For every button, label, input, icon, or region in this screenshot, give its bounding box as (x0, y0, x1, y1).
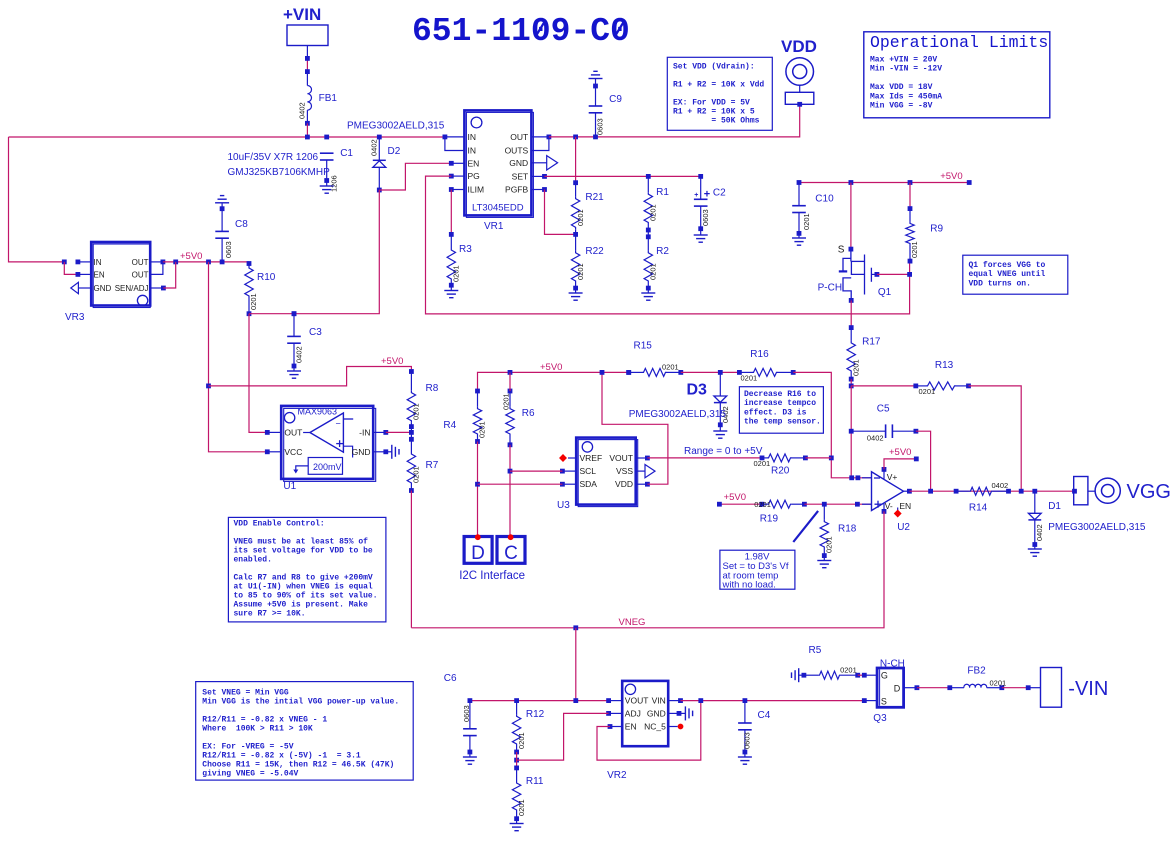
wire -IN (386, 431, 412, 433)
resistor R9 (906, 183, 914, 264)
junction (292, 311, 297, 316)
net +5V0 (889, 447, 911, 458)
svg-text:0201: 0201 (919, 387, 936, 396)
svg-text:0201: 0201 (802, 213, 811, 230)
value 0201 (R16) (741, 374, 758, 383)
junction (717, 502, 722, 507)
svg-text:0201: 0201 (576, 209, 585, 226)
svg-text:SET: SET (512, 171, 529, 181)
label C3 (309, 327, 322, 338)
wire (805, 457, 831, 459)
label R20 (771, 466, 790, 477)
value 0201 (R4) (477, 421, 486, 438)
value 0201 (R19) (754, 500, 771, 509)
svg-text:0201: 0201 (662, 362, 679, 371)
note capacitor part (228, 152, 331, 178)
junction (514, 758, 519, 763)
junction (928, 489, 1037, 494)
junction (514, 698, 578, 703)
label C4 (758, 710, 771, 721)
svg-text:R1 + R2 = 10K x 5: R1 + R2 = 10K x 5 (673, 108, 755, 117)
svg-text:-IN: -IN (359, 428, 370, 438)
op-amp U2 (862, 467, 912, 517)
junction (247, 311, 252, 316)
wire +5V0 rail (799, 182, 969, 184)
resistor R21 (571, 180, 579, 234)
svg-text:Decrease R16 to: Decrease R16 to (744, 390, 816, 399)
wire VR3 EN tie (64, 262, 78, 275)
svg-text:EX: For -VREG = -5V: EX: For -VREG = -5V (202, 743, 293, 752)
junction (849, 429, 854, 434)
junction (718, 370, 723, 375)
junction (849, 384, 854, 389)
svg-text:Max Ids = 450mA: Max Ids = 450mA (870, 92, 942, 101)
svg-text:Calc R7 and R8 to give +200mV: Calc R7 and R8 to give +200mV (234, 574, 373, 583)
svg-text:enabled.: enabled. (234, 556, 272, 565)
part PMEG3002AELD,315 (D1) (1048, 522, 1146, 533)
label FB1 (319, 93, 338, 104)
svg-text:Range = 0 to +5V: Range = 0 to +5V (684, 446, 763, 457)
svg-text:PGFB: PGFB (505, 185, 528, 195)
svg-text:GND: GND (647, 708, 666, 718)
junction (907, 272, 912, 277)
note Set VDD (667, 57, 772, 130)
svg-text:SEN/ADJ: SEN/ADJ (115, 284, 149, 293)
wire SET net (545, 175, 701, 177)
svg-text:Max +VIN = 20V: Max +VIN = 20V (870, 56, 937, 65)
wire +VIN rail (9, 136, 445, 138)
junction (409, 430, 414, 435)
value 0402 (C5) (867, 434, 884, 443)
svg-text:0603: 0603 (743, 732, 752, 749)
svg-text:R12/R11 = -0.82 x VNEG - 1: R12/R11 = -0.82 x VNEG - 1 (202, 716, 327, 725)
capacitor C9 (589, 71, 603, 137)
svg-text:651-1109-C0: 651-1109-C0 (412, 13, 630, 50)
label S (Q1 source) (838, 245, 845, 256)
note Operational Limits (864, 32, 1050, 118)
wire (306, 123, 308, 137)
wire (851, 385, 916, 387)
junction (508, 370, 631, 375)
transistor Q3 (N-CH MOSFET) (862, 668, 919, 707)
svg-text:EN: EN (468, 158, 480, 168)
wire (9, 137, 65, 262)
label R17 (862, 337, 881, 348)
label R16 (750, 349, 769, 360)
label U2 (897, 522, 910, 533)
value 0201 (R18) (825, 536, 834, 553)
label D2 (388, 146, 401, 157)
svg-text:VDD Enable Control:: VDD Enable Control: (234, 520, 325, 529)
wire OUT net (549, 104, 800, 137)
resistor R20 (760, 454, 808, 462)
note VDD Enable Control (228, 517, 386, 622)
svg-text:Q3: Q3 (873, 713, 887, 724)
svg-text:+: + (694, 192, 698, 199)
svg-text:Set VNEG = Min VGG: Set VNEG = Min VGG (202, 689, 289, 698)
svg-text:0201: 0201 (576, 263, 585, 280)
wire PG net (426, 176, 910, 314)
junction (475, 482, 480, 487)
value 0201 (R10) (249, 293, 258, 310)
diode D1 (1028, 491, 1042, 556)
svg-text:0201: 0201 (452, 265, 461, 282)
wire +5V0 from VR3 (163, 261, 249, 263)
svg-text:−: − (336, 419, 341, 429)
svg-text:0201: 0201 (990, 679, 1007, 688)
label Q3 (873, 713, 887, 724)
svg-text:ADJ: ADJ (625, 708, 641, 718)
value 0201 (R20) (754, 459, 771, 468)
svg-text:VDD turns on.: VDD turns on. (969, 279, 1031, 288)
capacitor C2 (polarized) (694, 174, 711, 242)
junction (305, 56, 310, 74)
svg-text:VNEG must be at least 85% of: VNEG must be at least 85% of (234, 538, 369, 547)
svg-text:U3: U3 (557, 500, 570, 511)
label R5 (809, 645, 822, 656)
svg-text:IN: IN (468, 146, 477, 156)
svg-text:D2: D2 (388, 146, 401, 157)
label C5 (877, 404, 890, 415)
svg-text:-VIN: -VIN (1068, 678, 1108, 700)
svg-text:+5V0: +5V0 (180, 251, 202, 262)
svg-text:V+: V+ (887, 472, 898, 482)
svg-text:IN: IN (94, 258, 102, 267)
wire SCL (510, 470, 562, 472)
svg-text:0201: 0201 (649, 204, 658, 221)
value 0201 (R22) (576, 263, 585, 280)
label C8 (235, 219, 248, 230)
label C1 (340, 148, 353, 159)
wire (306, 58, 308, 71)
svg-text:VNEG: VNEG (619, 617, 646, 628)
svg-text:C5: C5 (877, 404, 890, 415)
resistor R15 (626, 368, 683, 376)
wire EN tie (597, 701, 701, 761)
value 0402 (D2) (369, 139, 378, 156)
port VDD (781, 37, 817, 107)
svg-text:EN: EN (625, 722, 637, 732)
label R19 (760, 514, 779, 525)
net +5V0 (724, 492, 746, 503)
svg-text:equal VNEG until: equal VNEG until (969, 270, 1046, 279)
capacitor C6 (463, 698, 477, 764)
svg-text:EX: For VDD = 5V: EX: For VDD = 5V (673, 99, 750, 108)
svg-text:D3: D3 (687, 382, 708, 399)
label D1 (1048, 501, 1061, 512)
svg-text:with no load.: with no load. (722, 580, 776, 591)
value 0603 (C8) (224, 241, 233, 258)
svg-text:D1: D1 (1048, 501, 1061, 512)
svg-text:I2C Interface: I2C Interface (459, 570, 525, 582)
junction (508, 469, 513, 474)
svg-text:N-CH: N-CH (880, 659, 905, 670)
svg-text:R1 + R2 = 10K x Vdd: R1 + R2 = 10K x Vdd (673, 81, 764, 90)
svg-text:Min -VIN = -12V: Min -VIN = -12V (870, 65, 942, 74)
label R9 (930, 224, 943, 235)
svg-text:+5V0: +5V0 (940, 171, 962, 182)
resistor R6 (506, 372, 514, 447)
svg-text:+5V0: +5V0 (381, 356, 403, 367)
label U1 (283, 481, 296, 492)
wire rail right (681, 700, 865, 702)
svg-text:R4: R4 (443, 420, 456, 431)
svg-text:PMEG3002AELD,315: PMEG3002AELD,315 (347, 121, 445, 132)
capacitor C4 (738, 701, 752, 765)
junction (914, 457, 919, 462)
value 0201 (R12) (517, 732, 526, 749)
svg-text:0201: 0201 (501, 393, 510, 410)
value 0201 (R3) (452, 265, 461, 282)
net +5V0 (940, 171, 962, 182)
DAC U3 (559, 438, 655, 507)
net +5V0 (540, 362, 562, 373)
part PMEG3002AELD,315 (D2) (347, 121, 445, 132)
label C9 (609, 94, 622, 105)
svg-text:Min VGG is the intial VGG powe: Min VGG is the intial VGG power-up value… (202, 698, 399, 707)
wire SDA (478, 483, 563, 485)
svg-text:Min VGG = -8V: Min VGG = -8V (870, 102, 933, 111)
value 0201 (R7) (411, 466, 420, 483)
junction (573, 135, 598, 140)
value 0402 (R14) (992, 481, 1009, 490)
junction (822, 502, 860, 507)
net +5V0 (381, 356, 403, 367)
svg-text:200mV: 200mV (313, 462, 342, 472)
label R1 (656, 187, 669, 198)
regulator VR1 (LT3045EDD) (443, 110, 558, 217)
wire (509, 445, 511, 537)
svg-text:GND: GND (94, 284, 112, 293)
label VR2 (607, 770, 627, 781)
svg-text:VR3: VR3 (65, 312, 85, 323)
svg-text:GND: GND (352, 447, 371, 457)
wire (575, 137, 577, 183)
svg-text:Q1: Q1 (878, 287, 892, 298)
net VNEG (619, 617, 646, 628)
svg-text:0603: 0603 (462, 705, 471, 722)
svg-text:R20: R20 (771, 466, 790, 477)
value 0201 (C10) (802, 213, 811, 230)
label FB2 (967, 666, 986, 677)
svg-text:R16: R16 (750, 349, 769, 360)
svg-text:0201: 0201 (249, 293, 258, 310)
svg-text:R11: R11 (526, 776, 544, 787)
wire V+ supply (884, 459, 916, 470)
wire (916, 431, 931, 491)
wire (681, 371, 740, 373)
resistor R11 (510, 766, 524, 831)
svg-text:EN: EN (899, 501, 911, 511)
svg-text:0201: 0201 (825, 536, 834, 553)
svg-text:PMEG3002AELD,315: PMEG3002AELD,315 (629, 409, 727, 420)
svg-text:effect. D3 is: effect. D3 is (744, 408, 807, 417)
resistor R10 (245, 261, 253, 314)
net +5V0 (180, 251, 202, 262)
svg-text:R12/R11 = -0.82 x (-5V) -1 =: R12/R11 = -0.82 x (-5V) -1 = 3.1 (202, 752, 361, 761)
svg-text:C10: C10 (815, 194, 834, 205)
wire to VCC (209, 262, 268, 452)
note Decrease R16 (739, 387, 823, 434)
svg-text:C3: C3 (309, 327, 322, 338)
comparator U1 (MAX9063) (265, 406, 399, 482)
wire PGFB net (545, 190, 577, 235)
value 0201 (R8) (411, 403, 420, 420)
value 0201 (R6) (501, 393, 510, 410)
label Range (684, 446, 763, 457)
wire (858, 674, 865, 676)
svg-text:0201: 0201 (754, 459, 771, 468)
svg-text:0201: 0201 (649, 263, 658, 280)
value 0603 (C9) (596, 118, 605, 135)
svg-text:IN: IN (468, 132, 477, 142)
value 0201 (R13) (919, 387, 936, 396)
part PMEG3002AELD,315 (D3) (629, 409, 727, 420)
label R2 (656, 246, 669, 257)
svg-text:OUT: OUT (132, 271, 149, 280)
svg-text:0603: 0603 (224, 241, 233, 258)
resistor R13 (913, 382, 970, 390)
svg-text:VOUT: VOUT (625, 696, 649, 706)
wire (477, 442, 479, 537)
label Q1 (878, 287, 892, 298)
svg-text:GMJ325KB7106KMHP: GMJ325KB7106KMHP (228, 167, 331, 178)
wire (410, 491, 412, 628)
wire U1 out net (249, 190, 379, 314)
svg-text:sure R7 >= 10K.: sure R7 >= 10K. (234, 610, 306, 619)
resistor R2 (641, 230, 655, 300)
svg-text:Set VDD (Vdrain):: Set VDD (Vdrain): (673, 63, 755, 72)
svg-text:GND: GND (509, 158, 528, 168)
diode D3 (713, 372, 727, 438)
svg-text:OUT: OUT (510, 132, 528, 142)
label R4 (443, 420, 456, 431)
regulator VR3 (71, 242, 166, 308)
svg-text:R19: R19 (760, 514, 779, 525)
svg-text:OUT: OUT (132, 258, 149, 267)
svg-text:R8: R8 (426, 383, 439, 394)
transistor Q1 (P-CH MOSFET) (839, 183, 880, 303)
svg-text:PG: PG (468, 171, 480, 181)
label R10 (257, 272, 276, 283)
label VR1 (484, 221, 504, 232)
value 0201 (R2) (649, 263, 658, 280)
label R7 (426, 460, 439, 471)
svg-text:R21: R21 (585, 192, 604, 203)
wire to U2 -in (793, 372, 871, 477)
junction (829, 456, 860, 481)
svg-text:0201: 0201 (910, 241, 919, 258)
value 0201 (R17) (852, 359, 861, 376)
resistor R1 (644, 174, 652, 232)
resistor R7 (407, 432, 415, 493)
svg-text:VR1: VR1 (484, 221, 504, 232)
svg-text:VDD: VDD (781, 37, 817, 56)
svg-text:0603: 0603 (596, 118, 605, 135)
value 1206 (329, 175, 338, 192)
svg-text:U2: U2 (897, 522, 910, 533)
svg-text:Choose R11 = 15K, then R12 = 4: Choose R11 = 15K, then R12 = 46.5K (47K) (202, 761, 394, 770)
wire ADJ net (517, 713, 609, 760)
resistor R8 (407, 369, 415, 432)
wire Range net (647, 457, 762, 459)
svg-text:R15: R15 (634, 341, 653, 352)
value 0402 (C3) (294, 346, 303, 363)
value 0402 (D1) (1035, 524, 1044, 541)
svg-text:0201: 0201 (517, 732, 526, 749)
svg-text:S: S (881, 697, 887, 707)
svg-text:increase tempco: increase tempco (744, 399, 816, 408)
wire VNEG (411, 511, 884, 627)
value 0201 (R5) (840, 666, 857, 675)
callout line (793, 511, 818, 542)
svg-text:D: D (471, 543, 485, 564)
svg-text:Where 100K > R11 > 10K: Where 100K > R11 > 10K (202, 725, 313, 734)
svg-text:Assume +5V0 is present. Make: Assume +5V0 is present. Make (234, 601, 369, 610)
capacitor C3 (287, 311, 301, 378)
label VR3 (65, 312, 85, 323)
label R21 (585, 192, 604, 203)
svg-text:0201: 0201 (852, 359, 861, 376)
svg-text:C2: C2 (713, 188, 726, 199)
resistor R16 (737, 368, 796, 376)
wire (917, 687, 950, 689)
wire Q1 drain (850, 300, 852, 327)
value 0603 (C6) (462, 705, 471, 722)
svg-text:FB2: FB2 (967, 666, 986, 677)
resistor R14 (954, 487, 1011, 495)
svg-text:R17: R17 (862, 337, 881, 348)
label R3 (459, 244, 472, 255)
port D (SDA) (464, 534, 492, 564)
svg-text:C4: C4 (758, 710, 771, 721)
note Set VNEG (196, 682, 414, 781)
svg-text:R3: R3 (459, 244, 472, 255)
svg-text:VOUT: VOUT (609, 453, 633, 463)
svg-text:0201: 0201 (411, 466, 420, 483)
svg-text:at U1(-IN) when VNEG is equal: at U1(-IN) when VNEG is equal (234, 583, 373, 592)
value 0201 (R9) (910, 241, 919, 258)
wire +5V0 rail (478, 372, 629, 391)
svg-text:D: D (894, 684, 901, 694)
resistor R22 (569, 234, 583, 300)
svg-text:VGG: VGG (1127, 481, 1171, 503)
svg-text:VIN: VIN (652, 696, 666, 706)
label R13 (935, 360, 954, 371)
wire (719, 503, 762, 505)
junction (646, 234, 651, 239)
wire (1002, 687, 1028, 689)
junction (698, 698, 747, 703)
capacitor C5 (851, 424, 918, 438)
svg-text:OUTS: OUTS (505, 146, 529, 156)
svg-text:P-CH: P-CH (818, 283, 842, 294)
ferrite bead FB2 (947, 684, 1004, 690)
resistor R12 (512, 701, 520, 755)
svg-text:0201: 0201 (411, 403, 420, 420)
value 0603 (C2) (701, 209, 710, 226)
svg-text:0402: 0402 (992, 481, 1009, 490)
label N-CH (880, 659, 905, 670)
svg-text:VR2: VR2 (607, 770, 627, 781)
svg-text:R6: R6 (522, 408, 535, 419)
svg-text:R14: R14 (969, 503, 988, 514)
svg-text:VSS: VSS (616, 466, 633, 476)
svg-text:SCL: SCL (580, 466, 597, 476)
value 0201 (R1) (649, 204, 658, 221)
title 651-1109-C0 (412, 13, 630, 50)
svg-text:+: + (704, 189, 710, 201)
